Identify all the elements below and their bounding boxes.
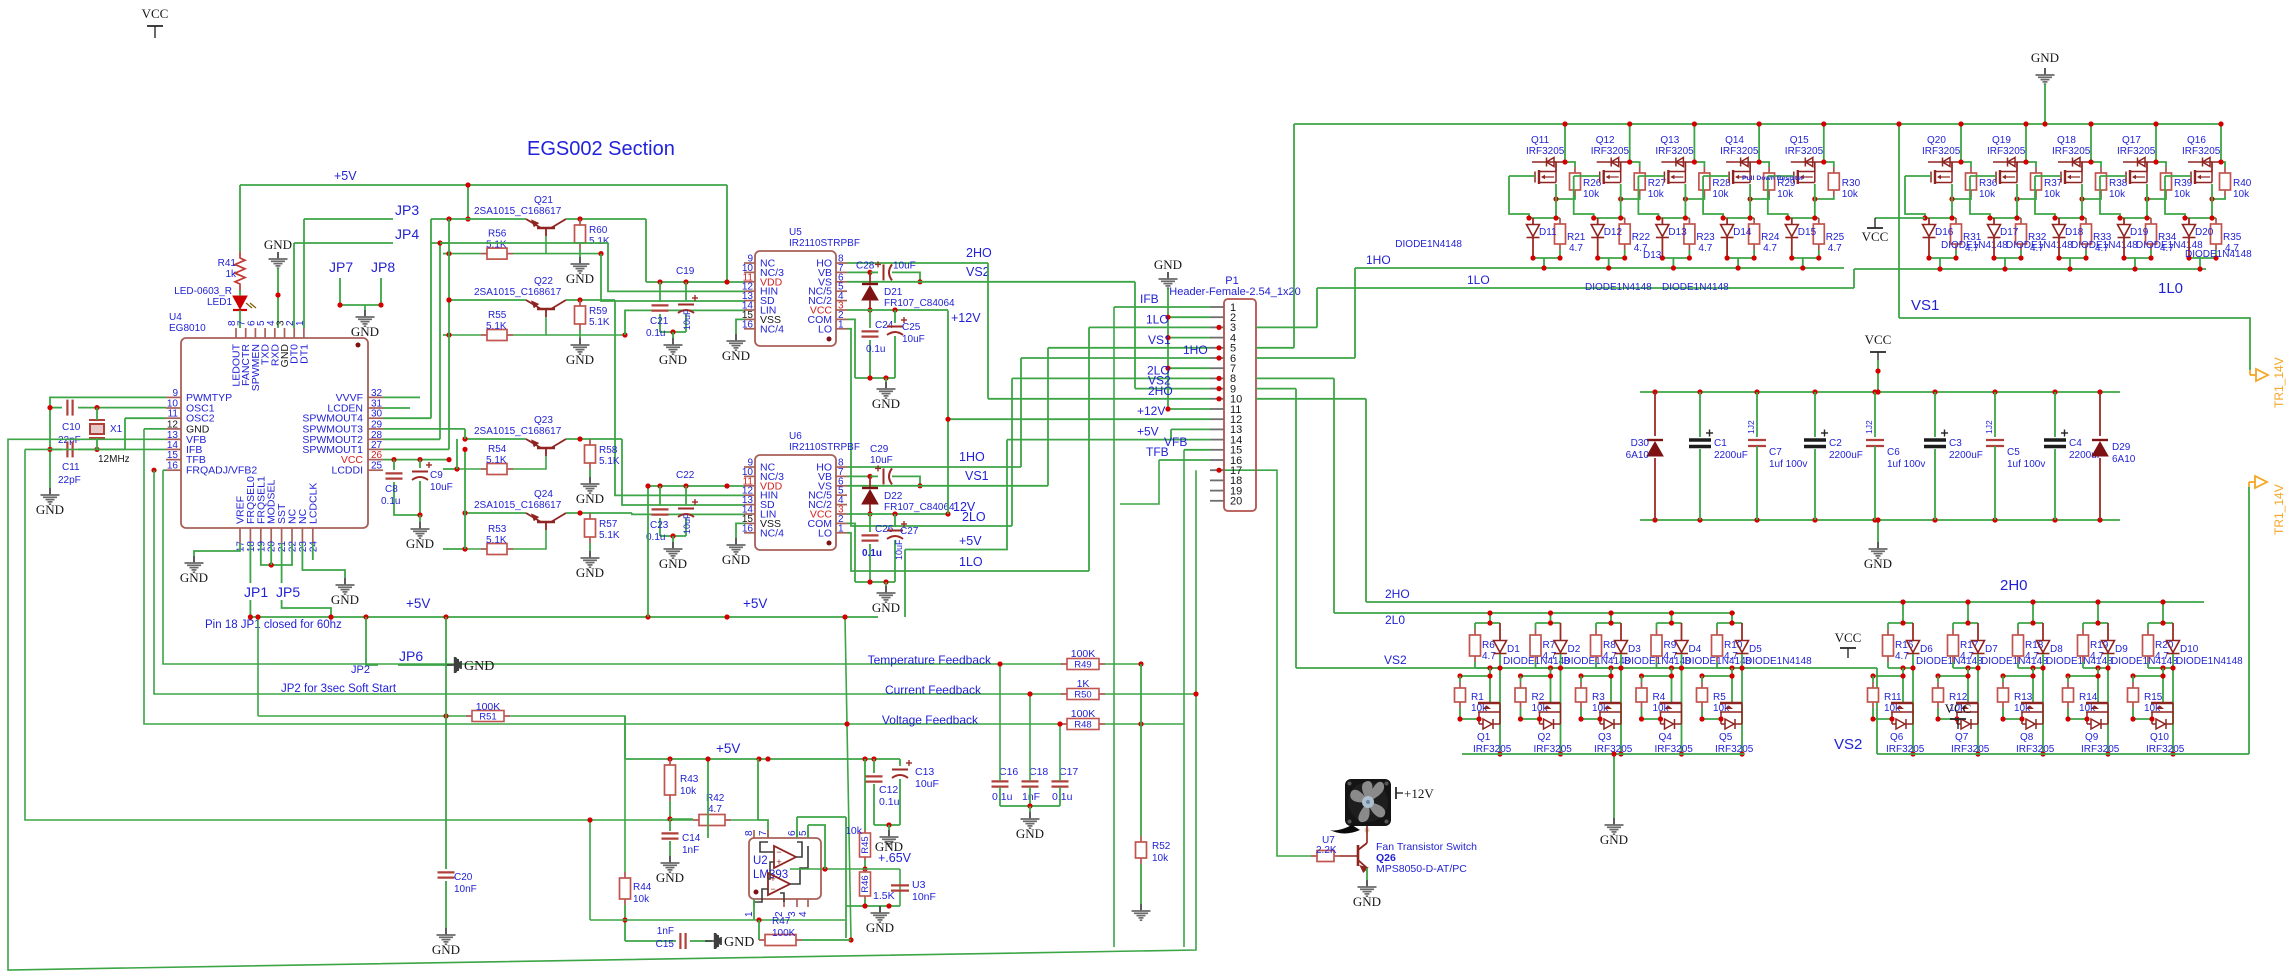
svg-text:9: 9 [172, 388, 178, 399]
svg-text:IRF3205: IRF3205 [1526, 146, 1565, 157]
junction [1487, 620, 1492, 625]
svg-text:GND: GND [866, 920, 894, 935]
wire R53 left [443, 548, 481, 550]
svg-text:R45: R45 [860, 836, 871, 853]
svg-text:4: 4 [798, 911, 809, 917]
wire current feedback row [154, 470, 1062, 694]
resistor R10 [1712, 629, 1723, 662]
svg-text:Q3: Q3 [1598, 732, 1612, 743]
U5 pin 4 NC/2 [836, 300, 847, 302]
junction [1562, 159, 1567, 164]
svg-text:C11: C11 [62, 462, 80, 473]
wire [659, 518, 661, 536]
lead [1726, 218, 1728, 224]
svg-text:Pin 18 JP1 closed for 60hz: Pin 18 JP1 closed for 60hz [205, 619, 342, 631]
junction [1889, 716, 1894, 721]
IC U6 IR2110STRPBF [755, 455, 836, 550]
wire Q12 source down [1620, 184, 1622, 218]
transistor Q18 (IRF3205) [2058, 158, 2091, 185]
junction [2088, 159, 2093, 164]
junction [2030, 673, 2035, 678]
U4 bottom pin 18 FRQSEL0 [249, 528, 251, 543]
junction [1748, 196, 1753, 201]
junction [1987, 215, 1992, 220]
U6 pin 16 NC/4 [744, 532, 755, 534]
wire P1 pin 1 IFB [1114, 306, 1210, 308]
wire SPWMOUT1 riser [448, 219, 450, 449]
wire U2 pin1 down [753, 899, 755, 920]
svg-text:D16: D16 [1935, 227, 1954, 238]
wire Q2 source column [1560, 654, 1562, 754]
svg-text:2SA1015_C168617: 2SA1015_C168617 [474, 426, 562, 437]
svg-text:Header-Female-2.54_1x20: Header-Female-2.54_1x20 [1169, 286, 1300, 298]
junction [1683, 215, 1688, 220]
wire P1 pin 9 VS2 [1135, 388, 1210, 390]
U5 pin 5 NC/5 [836, 290, 847, 292]
wire drain down [1967, 668, 1969, 703]
svg-text:R22: R22 [1632, 232, 1651, 243]
svg-text:1J2: 1J2 [1864, 420, 1874, 434]
svg-text:D15: D15 [1798, 227, 1817, 238]
capacitor C23 plates [652, 509, 669, 514]
junction [657, 279, 662, 284]
wire JP6 to ground [398, 664, 452, 666]
wire +5V rail to C20 [445, 617, 447, 869]
wire pin5 to rail [808, 825, 825, 869]
resistor R29 [1764, 167, 1775, 196]
resistor R40 [2220, 167, 2231, 196]
junction [1900, 665, 1905, 670]
P1 pin 7 [1210, 367, 1224, 369]
svg-text:LO: LO [818, 527, 832, 539]
svg-text:2200uF: 2200uF [1949, 450, 1983, 461]
svg-text:5.1K: 5.1K [486, 535, 507, 546]
svg-text:1K: 1K [1077, 678, 1090, 690]
svg-text:+5V: +5V [1137, 425, 1159, 439]
wire Q19 drain to rail [2025, 124, 2027, 162]
svg-text:GND: GND [2031, 50, 2059, 65]
junction [2144, 196, 2149, 201]
junction [1729, 673, 1734, 678]
capacitor C10 plates [67, 400, 72, 416]
svg-text:100K: 100K [476, 701, 501, 713]
junction [2052, 389, 2057, 394]
svg-text:EG8010: EG8010 [169, 323, 206, 334]
svg-text:10uF: 10uF [870, 455, 893, 466]
wire C9 bottom [419, 481, 421, 515]
wire R53 left [443, 548, 465, 550]
wire SPWMOUT4 [383, 417, 431, 419]
U4 bottom pin 22 NC [291, 528, 293, 543]
wire P1 pin 6 1HO [1021, 357, 1210, 359]
ground under C24 C25 [877, 382, 896, 398]
svg-text:IFB: IFB [1140, 292, 1159, 306]
wire clamp top [1990, 217, 2021, 219]
body diode of Q10 [2156, 719, 2166, 729]
svg-text:R24: R24 [1761, 232, 1780, 243]
svg-text:D30: D30 [1631, 438, 1650, 449]
resistor R8 [1591, 629, 1602, 662]
capacitor C24 plates [862, 331, 879, 336]
wire cell stub [2032, 602, 2034, 623]
wire [1474, 623, 1476, 629]
wire Q11 source down [1555, 184, 1557, 218]
wire [1887, 623, 1889, 629]
lead D21 [869, 272, 871, 283]
lead [1532, 238, 1534, 258]
svg-text:C20: C20 [454, 872, 473, 883]
svg-text:0.1u: 0.1u [646, 328, 665, 339]
ground at U6 VSS [727, 538, 746, 554]
svg-text:Q15: Q15 [1790, 135, 1809, 146]
diode D17 [1988, 225, 2001, 238]
wire gate join [1702, 712, 1721, 719]
wire [2132, 676, 2134, 682]
svg-text:100K: 100K [1071, 708, 1096, 720]
svg-text:GND: GND [264, 237, 292, 252]
svg-text:20: 20 [1230, 496, 1242, 508]
ground flag above U4 [269, 252, 288, 268]
wire P1 pin 3 1LO [1089, 326, 1210, 328]
junction [1627, 121, 1632, 126]
wire 1LO riser [1088, 327, 1090, 571]
wire gate join [1642, 712, 1661, 719]
wire Q19 gate lead [1970, 175, 1996, 177]
svg-text:R43: R43 [680, 774, 699, 785]
junction [1669, 665, 1674, 670]
svg-text:+5V: +5V [959, 534, 982, 548]
wire R27 bottom [1621, 196, 1640, 199]
junction [1821, 159, 1826, 164]
junction [1754, 517, 1759, 522]
diode D3 [1615, 641, 1628, 654]
U4 top pin 6 SPWMEN [254, 328, 256, 338]
junction [892, 307, 897, 312]
wire [1459, 676, 1461, 682]
svg-text:R57: R57 [599, 519, 618, 530]
svg-text:FR107_C84064: FR107_C84064 [884, 502, 955, 513]
junction [47, 447, 52, 452]
junction [446, 457, 451, 462]
svg-text:+: + [770, 874, 775, 884]
lead [2188, 218, 2190, 224]
wire to ground [672, 536, 674, 542]
svg-text:GND: GND [659, 352, 687, 367]
wire gate row [1702, 675, 1732, 677]
junction [2014, 215, 2019, 220]
wire pin13 to pin14 [1170, 429, 1172, 439]
wire 1HO riser [1354, 268, 1356, 358]
wire to C13 [899, 759, 901, 766]
wire Q1 source column [1499, 654, 1501, 754]
ground above P1 [1159, 272, 1178, 288]
junction [1627, 159, 1632, 164]
junction [862, 866, 867, 871]
junction [1526, 215, 1531, 220]
svg-text:C15: C15 [656, 939, 675, 950]
svg-text:Pull Down Resister: Pull Down Resister [1742, 175, 1804, 182]
U5 pin 7 VB [836, 271, 847, 273]
diode D20 [2183, 225, 2196, 238]
svg-text:5.1K: 5.1K [589, 236, 610, 247]
junction [683, 483, 688, 488]
op-amp U2A triangle [774, 846, 796, 868]
P1 pin 1 [1210, 306, 1224, 308]
junction [1553, 215, 1558, 220]
wire [2082, 662, 2084, 668]
junction [867, 511, 872, 516]
svg-text:11: 11 [168, 409, 179, 420]
lead [1661, 218, 1663, 224]
wire C12 down [873, 784, 875, 825]
wire [1872, 708, 1874, 712]
junction [1965, 673, 1970, 678]
capacitor C15 plates [680, 933, 685, 949]
capacitor C13 plates [892, 770, 908, 779]
junction [1548, 673, 1553, 678]
junction [1656, 215, 1661, 220]
capacitor C1 [1689, 440, 1711, 447]
svg-text:C12: C12 [879, 784, 898, 796]
U5 pin 13 SD [744, 300, 755, 302]
svg-text:Q18: Q18 [2057, 135, 2076, 146]
lead [1928, 218, 1930, 224]
wire P1 pin 8 2LO [1012, 377, 1210, 379]
svg-text:+12V: +12V [951, 311, 981, 325]
svg-text:VS1: VS1 [965, 469, 989, 483]
svg-text:Q11: Q11 [1531, 135, 1550, 146]
lead [1560, 623, 1562, 641]
ground under R46 U3 [871, 906, 890, 922]
svg-text:C4: C4 [2069, 438, 2082, 449]
wire clamp bottom [1598, 257, 1625, 259]
wire [1872, 676, 1874, 682]
junction [1697, 517, 1702, 522]
wire [1937, 676, 1939, 682]
wire [1580, 708, 1582, 712]
svg-text:10nF: 10nF [454, 884, 477, 895]
wire cell mid [1953, 667, 1978, 669]
wire Q11 gate to clamp [1509, 176, 1529, 218]
junction [2030, 599, 2035, 604]
U4 pin 26 VCC [368, 459, 383, 461]
wire JP1 to +5V rail [249, 600, 251, 617]
wire [2020, 250, 2022, 258]
transistor Q13 (IRF3205) [1661, 158, 1694, 185]
junction [1932, 389, 1937, 394]
wire +5V to JP3 line [467, 185, 469, 219]
capacitor C11 plates [67, 441, 72, 457]
svg-text:GND: GND [1864, 556, 1892, 571]
junction [577, 436, 582, 441]
svg-text:DIODE1N4148: DIODE1N4148 [1395, 239, 1462, 250]
junction [756, 756, 761, 761]
svg-text:22: 22 [288, 541, 299, 553]
junction [2117, 215, 2122, 220]
wire +12V riser [947, 310, 949, 514]
junction [670, 329, 675, 334]
junction [446, 297, 451, 302]
svg-text:C3: C3 [1949, 438, 1962, 449]
junction [667, 816, 672, 821]
svg-text:R3: R3 [1592, 692, 1605, 703]
junction [1216, 325, 1221, 330]
svg-text:2SA1015_C168617: 2SA1015_C168617 [474, 287, 562, 298]
junction [1193, 691, 1198, 696]
svg-text:R54: R54 [488, 444, 507, 455]
wire clamp top [1925, 217, 1956, 219]
svg-text:GND: GND [576, 491, 604, 506]
resistor R49 [1061, 659, 1105, 670]
svg-text:U4: U4 [169, 312, 182, 323]
wire cell top [1888, 622, 1913, 624]
junction [2042, 121, 2047, 126]
junction [462, 447, 467, 452]
junction [1699, 716, 1704, 721]
op-amp U2B triangle [768, 873, 790, 895]
wire OSC2 [125, 417, 166, 419]
P1 pin 12 [1210, 418, 1224, 420]
junction [2040, 751, 2045, 756]
junction [862, 903, 867, 908]
junction [2030, 665, 2035, 670]
lead [1977, 623, 1979, 641]
svg-text:GND: GND [722, 552, 750, 567]
U4 top pin 8 LEDOUT [235, 328, 237, 338]
junction [248, 614, 253, 619]
wire Q16 drain to rail [2220, 124, 2222, 162]
body diode of Q2 [1544, 719, 1554, 729]
U2 pin 3 [796, 899, 798, 907]
wire gate join [1938, 712, 1957, 719]
svg-text:1.5K: 1.5K [873, 890, 895, 902]
junction [862, 756, 867, 761]
wire [1699, 449, 1701, 520]
P1 pin 3 [1210, 326, 1224, 328]
junction [1165, 366, 1170, 371]
junction [1671, 265, 1676, 270]
junction [1669, 620, 1674, 625]
wire Q18 source down [2081, 184, 2083, 218]
lead [2107, 623, 2109, 641]
wire 2LO east [1256, 377, 1334, 379]
svg-text:0.1u: 0.1u [1052, 791, 1073, 803]
wire Q14 gate to clamp [1703, 176, 1723, 218]
diode D10 [2167, 641, 2180, 654]
wire [1595, 662, 1597, 668]
junction [1812, 215, 1817, 220]
capacitor C9 plates [412, 472, 428, 481]
wire VFB voltage feedback row [144, 429, 1062, 724]
junction [443, 614, 448, 619]
wire [1059, 787, 1061, 806]
junction [1748, 215, 1753, 220]
transistor Q21 [526, 219, 566, 236]
body diode of Q4 [1665, 719, 1675, 729]
wire VS2 run [1296, 667, 1877, 669]
wire C13 down [899, 779, 901, 825]
svg-text:2200uF: 2200uF [1714, 450, 1748, 461]
svg-text:4.7: 4.7 [1763, 243, 1777, 254]
svg-text:Temperature Feedback: Temperature Feedback [868, 653, 992, 667]
junction [724, 483, 729, 488]
wire R43 down [669, 801, 671, 819]
wire cluster rail [646, 281, 745, 283]
svg-text:20: 20 [267, 541, 278, 553]
wire TFB to R42 [25, 449, 693, 820]
wire cell stub [1489, 613, 1491, 623]
junction [622, 332, 627, 337]
junction [1165, 335, 1170, 340]
wire Q15 gate to clamp [1768, 176, 1788, 218]
svg-text:IRF3205: IRF3205 [1591, 146, 1630, 157]
wire left lower source rail [1462, 753, 1744, 755]
svg-text:10k: 10k [1842, 189, 1859, 200]
wire Q10 source column [2172, 654, 2174, 754]
wire to U2 pin6 [796, 817, 798, 838]
junction [2218, 159, 2223, 164]
U4 bottom pin 21 SST [281, 528, 283, 543]
junction [871, 756, 876, 761]
wire U6 VSS to gnd [736, 523, 745, 538]
junction [2095, 673, 2100, 678]
wire [1701, 708, 1703, 712]
svg-text:R44: R44 [633, 882, 652, 893]
wire [1753, 250, 1755, 258]
resistor R50 [1061, 689, 1105, 700]
junction [2002, 266, 2007, 271]
junction [1875, 368, 1880, 373]
junction [1757, 121, 1762, 126]
wire R51 row left [258, 715, 466, 717]
svg-text:D29: D29 [2112, 442, 2131, 453]
ground arrow at JP6 [445, 657, 462, 673]
P1 pin 11 [1210, 408, 1224, 410]
junction [1548, 610, 1553, 615]
transistor Q24 [526, 513, 566, 530]
wire [1874, 446, 1876, 520]
wire drain down [1610, 668, 1612, 703]
ground under C26 C27 [877, 586, 896, 602]
junction [2182, 215, 2187, 220]
junction [2014, 196, 2019, 201]
svg-text:VCC: VCC [1865, 332, 1892, 347]
svg-text:R40: R40 [2233, 178, 2252, 189]
resistor R31 [1951, 218, 1962, 250]
U4 bottom pin 23 NC [301, 528, 303, 543]
svg-text:VS2: VS2 [1834, 736, 1862, 753]
wire R55 left [443, 334, 449, 336]
diode D29 [2092, 442, 2108, 456]
svg-text:R36: R36 [1979, 178, 1998, 189]
junction [94, 447, 99, 452]
svg-text:GND: GND [36, 502, 64, 517]
wire [2002, 676, 2004, 682]
wire Q15 drain to rail [1823, 124, 1825, 162]
wire [1520, 676, 1522, 682]
svg-text:D2: D2 [1568, 644, 1581, 655]
junction [1639, 673, 1644, 678]
wire FRQADJ out [163, 469, 166, 471]
diode D15 [1785, 225, 1798, 238]
svg-text:2200uF: 2200uF [1829, 450, 1863, 461]
junction [2000, 673, 2005, 678]
U4 bottom pin 20 MODSEL [270, 528, 272, 543]
wire 2HO riser [1365, 399, 1367, 602]
U5 pin 8 HO [836, 262, 847, 264]
capacitor C14 plates [662, 833, 679, 838]
resistor R18 [2013, 629, 2024, 662]
